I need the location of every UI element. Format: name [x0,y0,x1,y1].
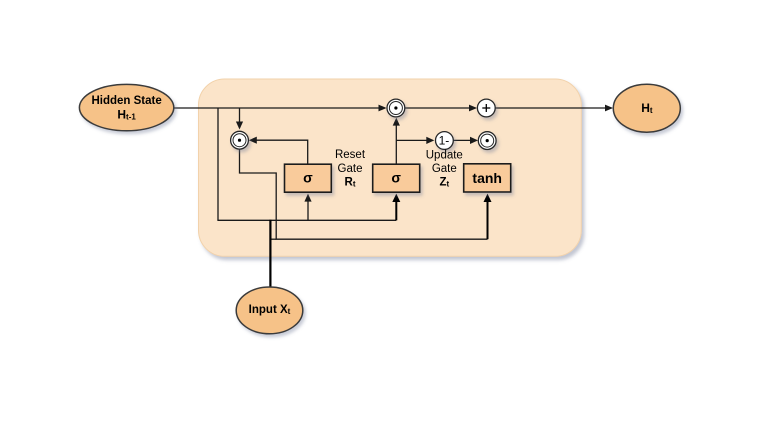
svg-text:Input Xt: Input Xt [249,304,291,316]
op circle one-minus [436,132,454,150]
gate box sigma update [373,164,420,192]
wire main hidden-state line (ellipse to reset-multiply circle) [172,105,387,112]
node output Ht ellipse [613,84,680,132]
svg-text:tanh: tanh [472,170,502,186]
wire input Xt to tanh feed stub [270,238,276,240]
svg-text:Gate: Gate [338,163,363,175]
svg-text:σ: σ [303,169,313,185]
svg-text:1-: 1- [439,134,450,148]
gate box sigma reset [285,164,332,192]
wire plus to output Ht [496,105,614,112]
svg-text:Gate: Gate [432,163,457,175]
wire sigma reset output up and left into left multiply circle [249,137,308,165]
op circle second elementwise-multiply [478,132,496,150]
container GRU cell body [199,79,582,256]
wire arrow up into sigma reset gate [304,194,311,221]
wire one-minus to second multiply circle [453,137,478,144]
wire left multiply output down right to tanh feed line [240,149,488,239]
wire branch right to one-minus circle [396,137,434,144]
wire thick arrow up into sigma update gate [392,194,400,221]
svg-text:Update: Update [426,150,463,162]
svg-text:Reset: Reset [335,149,366,161]
node Input Xt ellipse [236,287,303,334]
wire multiply to plus [405,105,477,112]
wire gates bus (concat line) [217,219,396,221]
op circle plus [477,99,495,117]
svg-text:σ: σ [391,169,401,185]
node Hidden State Ht-1 ellipse [79,84,173,130]
svg-text:Hidden State: Hidden State [91,95,161,107]
wire thick input Xt stem [269,220,271,288]
wire branch down from main line at x=218 to gates bus [217,108,219,220]
wire branch down arrow into left multiply circle [236,108,243,130]
gate box tanh [464,164,511,192]
wire thick arrow up into tanh [484,194,492,240]
op circle left elementwise-multiply [231,131,249,149]
wire sigma update output up arrow into top multiply circle [393,118,400,165]
op circle top elementwise-multiply [387,99,405,117]
